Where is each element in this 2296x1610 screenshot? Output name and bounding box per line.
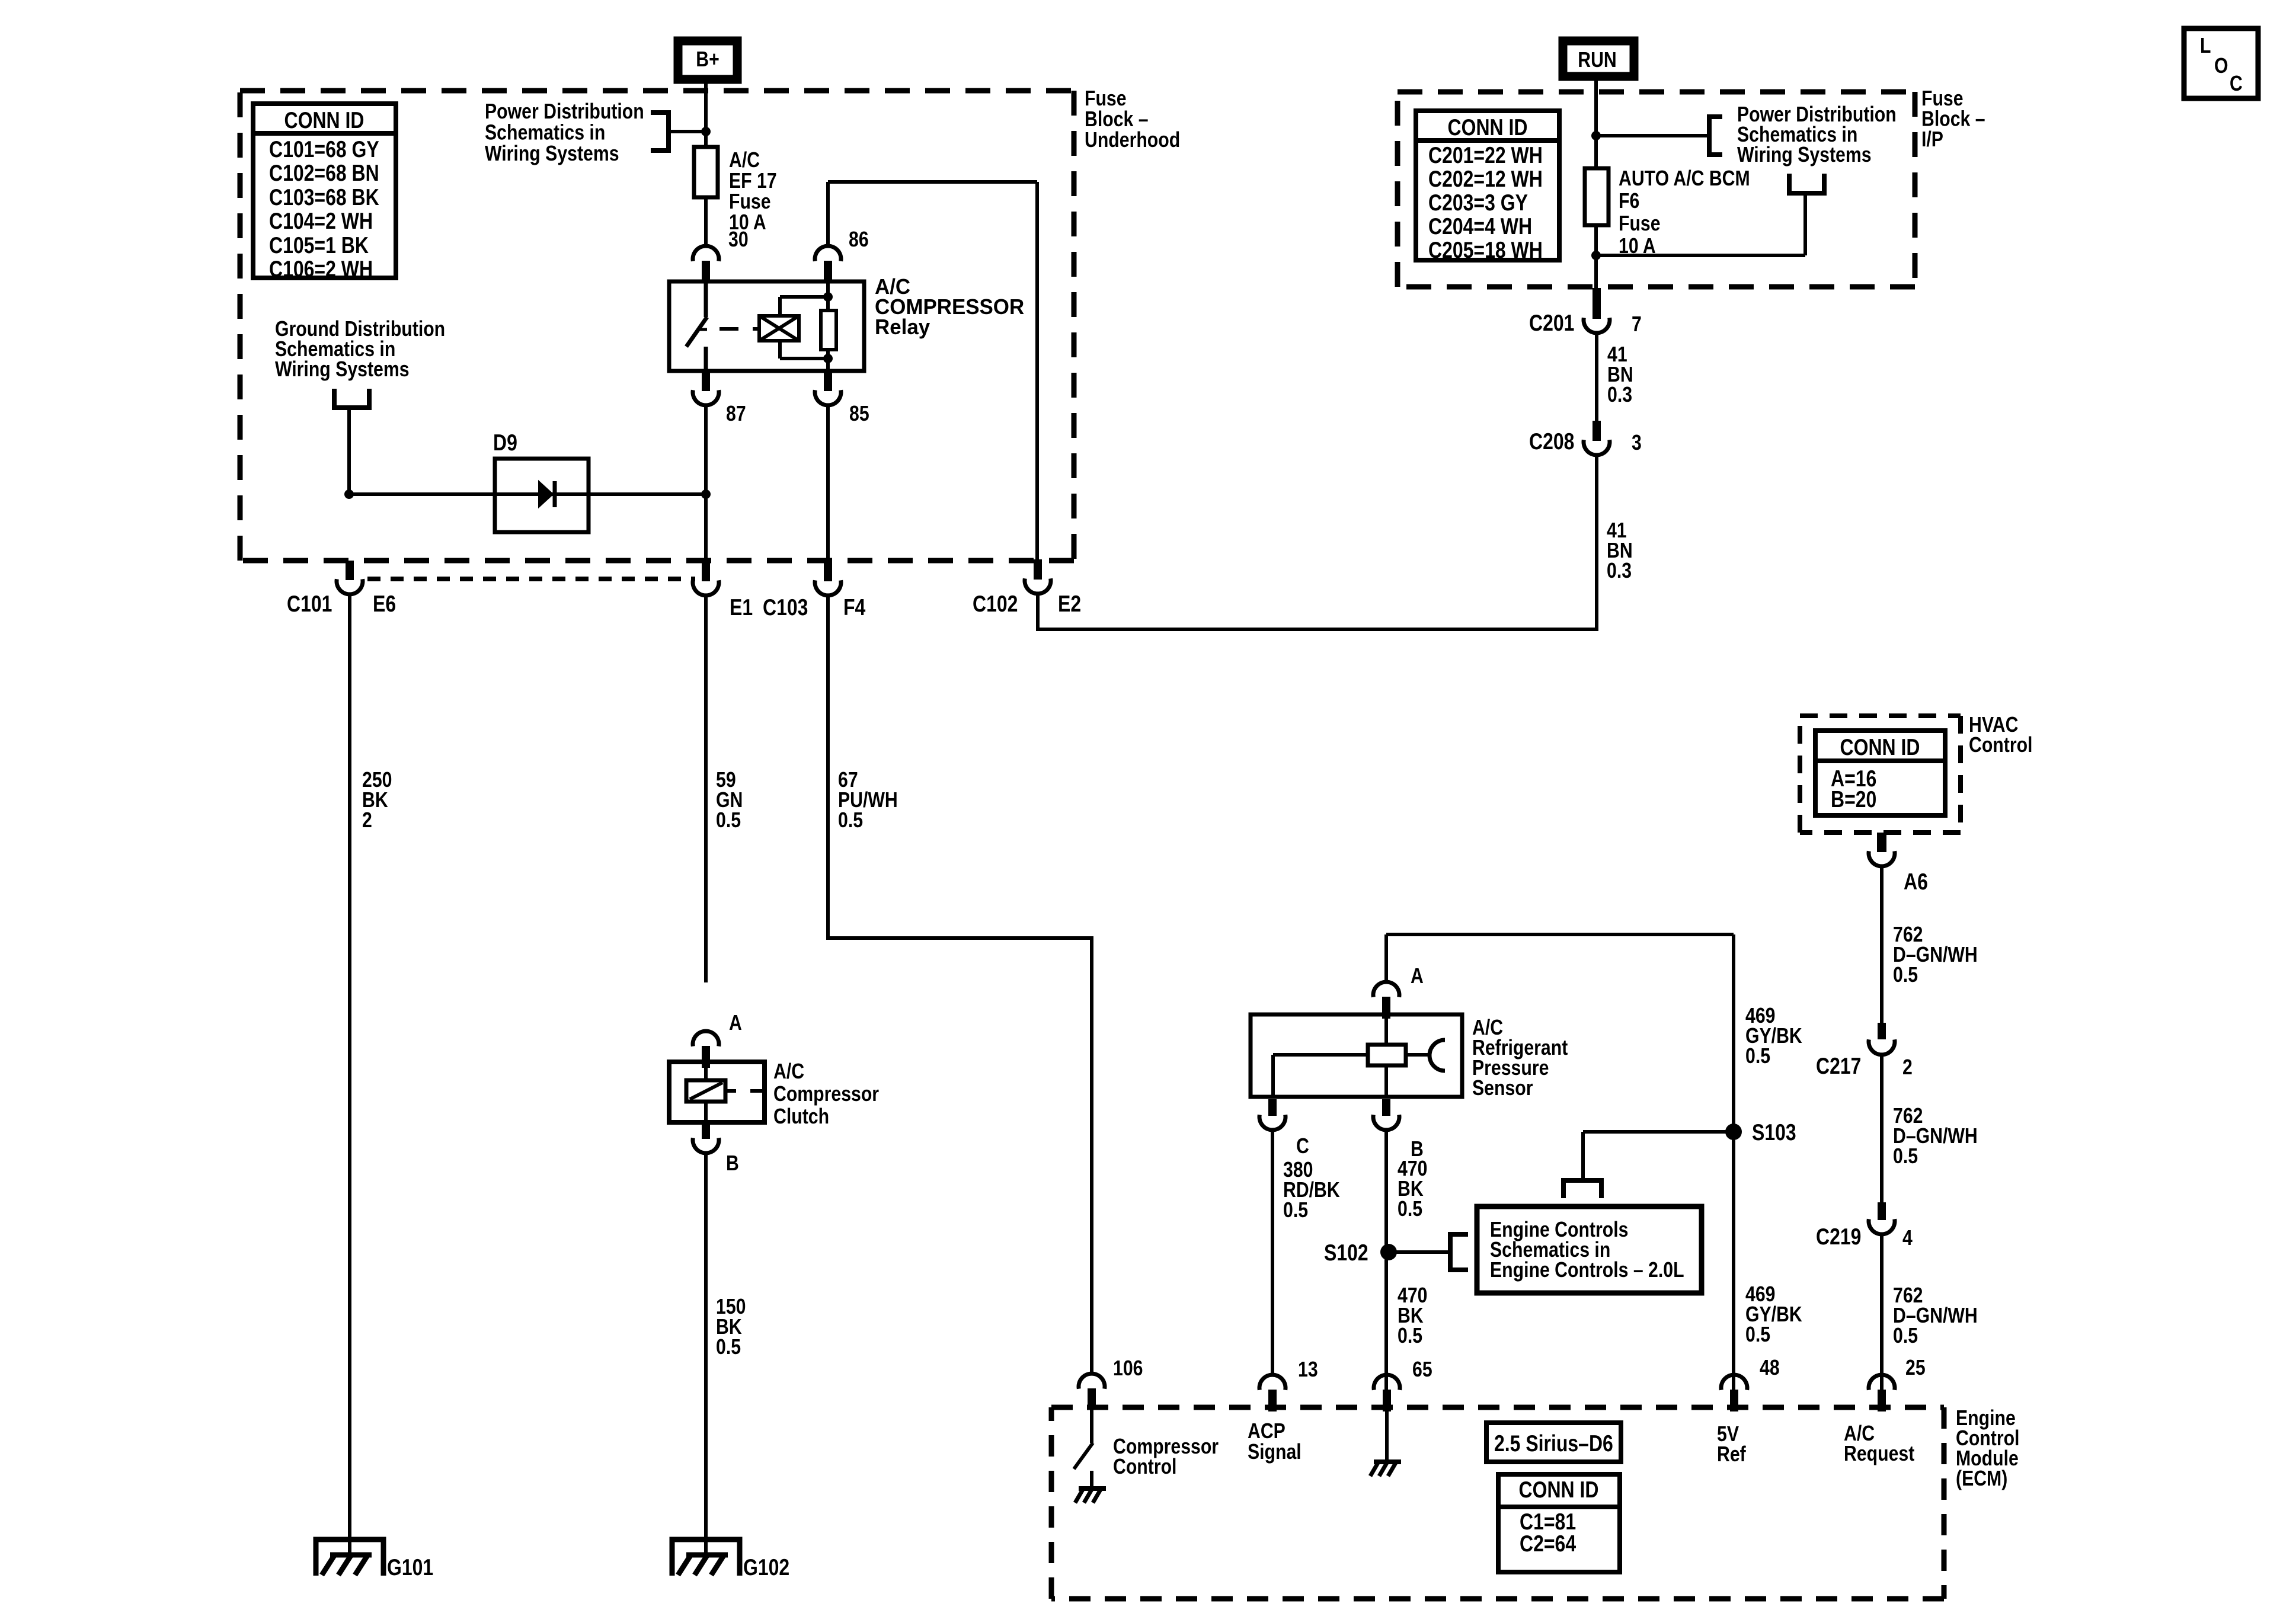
svg-text:A6: A6 xyxy=(1904,869,1928,895)
connector C101/E6 xyxy=(346,561,354,580)
svg-text:C106=2 WH: C106=2 WH xyxy=(269,256,373,282)
sensor internal wires xyxy=(1384,1014,1388,1045)
fuse F6 AUTO A/C BCM xyxy=(1585,168,1609,225)
svg-text:Fuse: Fuse xyxy=(1619,212,1661,236)
svg-text:Relay: Relay xyxy=(875,315,930,340)
wire S102 to bracket xyxy=(1389,1250,1449,1254)
wire F4 to 106 jog xyxy=(826,596,830,938)
svg-text:L: L xyxy=(2200,34,2211,58)
wire 86 circuit riser E2 xyxy=(828,180,1037,184)
svg-text:C202=12 WH: C202=12 WH xyxy=(1428,166,1543,192)
svg-text:C203=3 GY: C203=3 GY xyxy=(1428,190,1528,216)
svg-text:2.5 Sirius–D6: 2.5 Sirius–D6 xyxy=(1494,1430,1613,1457)
svg-text:Ref: Ref xyxy=(1717,1443,1747,1467)
table CONN ID I/P xyxy=(1416,111,1559,260)
bracket down engine controls xyxy=(1561,1178,1566,1198)
node junction RUN wire xyxy=(1591,131,1601,140)
relay switch blade xyxy=(686,317,707,347)
svg-text:25: 25 xyxy=(1905,1356,1926,1380)
bracket engine controls S102 xyxy=(1450,1234,1468,1270)
svg-text:0.5: 0.5 xyxy=(1398,1198,1422,1221)
wire sensor top horizontal xyxy=(1386,933,1734,936)
svg-text:Wiring Systems: Wiring Systems xyxy=(275,358,410,382)
svg-text:3: 3 xyxy=(1632,431,1642,455)
svg-text:C217: C217 xyxy=(1816,1053,1861,1079)
svg-text:Wiring Systems: Wiring Systems xyxy=(1737,143,1872,167)
ground compressor control xyxy=(1079,1486,1106,1491)
connector pin 65 xyxy=(1374,1375,1400,1390)
svg-text:C102=68 BN: C102=68 BN xyxy=(269,160,379,186)
wire 65 to ground xyxy=(1385,1408,1389,1462)
svg-text:Request: Request xyxy=(1844,1442,1914,1466)
box 2.5 Sirius-D6 xyxy=(1486,1423,1621,1462)
connector pin 87 xyxy=(702,371,710,391)
connector sensor pin C xyxy=(1268,1099,1277,1116)
svg-text:C101=68 GY: C101=68 GY xyxy=(269,136,379,162)
svg-text:RUN: RUN xyxy=(1578,49,1617,72)
svg-text:0.3: 0.3 xyxy=(1607,383,1632,407)
svg-text:B: B xyxy=(726,1152,739,1176)
svg-text:0.5: 0.5 xyxy=(1893,1145,1918,1169)
connector C208 xyxy=(1593,421,1601,441)
dotted harness line C101-E1 xyxy=(367,577,695,581)
dashed box HVAC Control xyxy=(1800,713,1961,718)
svg-text:65: 65 xyxy=(1412,1358,1432,1382)
svg-text:O: O xyxy=(2214,55,2228,78)
svg-text:F6: F6 xyxy=(1619,190,1639,213)
svg-text:0.3: 0.3 xyxy=(1607,559,1632,583)
connector pin 106 xyxy=(1079,1374,1105,1389)
svg-text:0.5: 0.5 xyxy=(1893,1324,1918,1348)
svg-text:0.5: 0.5 xyxy=(838,809,863,833)
bracket power distribution I/P xyxy=(1709,117,1722,155)
svg-text:0.5: 0.5 xyxy=(1283,1199,1308,1222)
wire bracket stem I/P xyxy=(1803,193,1807,255)
location box LOC xyxy=(2184,28,2258,98)
svg-text:Sensor: Sensor xyxy=(1472,1077,1533,1100)
wire B+ to fuse EF17 xyxy=(704,79,708,248)
svg-text:2: 2 xyxy=(1902,1056,1913,1080)
svg-text:87: 87 xyxy=(726,402,746,426)
node coil bottom xyxy=(823,354,833,363)
svg-text:Engine Controls – 2.0L: Engine Controls – 2.0L xyxy=(1490,1259,1684,1282)
svg-text:0.5: 0.5 xyxy=(1745,1045,1770,1068)
wire RUN to fuse F6 xyxy=(1594,78,1598,168)
svg-text:C208: C208 xyxy=(1529,428,1574,454)
connector sensor pin A xyxy=(1373,982,1399,997)
svg-text:CONN ID: CONN ID xyxy=(1448,114,1528,140)
wire long horizontal to E2 xyxy=(1038,628,1597,631)
connector pin 25 xyxy=(1869,1375,1895,1390)
relay switch tick xyxy=(699,328,707,331)
connector C201 xyxy=(1593,288,1601,319)
dashed box Engine Control Module xyxy=(1051,1405,1944,1410)
svg-text:C201=22 WH: C201=22 WH xyxy=(1428,142,1543,168)
svg-text:0.5: 0.5 xyxy=(1745,1323,1770,1347)
svg-text:Signal: Signal xyxy=(1248,1441,1302,1464)
relay switch pin30 stub xyxy=(704,281,708,317)
svg-text:C201: C201 xyxy=(1529,310,1574,336)
wire coil risers xyxy=(778,297,782,316)
wire A6 to C217 xyxy=(1880,866,1884,1024)
wire clutch B to G102 xyxy=(704,1153,708,1555)
diode D9 symbol xyxy=(539,481,553,507)
diode box D9 xyxy=(495,459,589,532)
table CONN ID HVAC xyxy=(1815,731,1945,815)
svg-text:Underhood: Underhood xyxy=(1085,129,1180,152)
svg-text:C: C xyxy=(1296,1135,1309,1158)
svg-text:C102: C102 xyxy=(973,591,1018,617)
sensor internal resistor xyxy=(1368,1045,1406,1065)
svg-text:CONN ID: CONN ID xyxy=(1840,734,1920,760)
clutch wire through xyxy=(704,1062,708,1080)
svg-text:I/P: I/P xyxy=(1921,128,1943,152)
wire C201 to C208 xyxy=(1595,333,1598,422)
wire coil top link xyxy=(780,295,828,299)
connector pin 48 xyxy=(1721,1375,1747,1390)
wire C217 to C219 xyxy=(1880,1055,1884,1204)
svg-text:0.5: 0.5 xyxy=(716,1336,741,1359)
svg-text:AUTO A/C BCM: AUTO A/C BCM xyxy=(1619,167,1750,191)
wire E1 to clutch A xyxy=(704,596,708,982)
bracket to Power Distribution schematics xyxy=(651,113,669,151)
svg-text:106: 106 xyxy=(1113,1357,1143,1381)
wire 106 drop xyxy=(1090,936,1093,1375)
svg-text:CONN ID: CONN ID xyxy=(284,107,364,133)
wire 87 to E1 xyxy=(704,405,708,562)
connector E1/C103 xyxy=(702,561,710,581)
wire S103 branch horizontal xyxy=(1583,1130,1734,1134)
svg-text:30: 30 xyxy=(728,228,749,252)
wire bracket stem to S103 branch xyxy=(1581,1132,1585,1180)
wire C208 down to corner xyxy=(1595,455,1598,631)
relay coil box with X xyxy=(759,316,799,341)
svg-text:C: C xyxy=(2230,72,2243,96)
svg-text:Compressor: Compressor xyxy=(773,1083,879,1106)
wire C219 to pin 25 xyxy=(1880,1234,1884,1390)
ground G101 xyxy=(316,1539,383,1576)
svg-text:S102: S102 xyxy=(1324,1240,1368,1266)
svg-text:A/C: A/C xyxy=(773,1060,804,1084)
svg-text:C105=1 BK: C105=1 BK xyxy=(269,232,369,258)
svg-text:E1: E1 xyxy=(730,594,753,620)
svg-text:7: 7 xyxy=(1632,313,1642,337)
connector C217 xyxy=(1878,1023,1886,1039)
svg-text:CONN ID: CONN ID xyxy=(1519,1477,1599,1503)
wire F4 jog horizontal xyxy=(826,936,1092,940)
node splice S102 xyxy=(1380,1244,1397,1260)
svg-text:0.5: 0.5 xyxy=(716,809,741,833)
node coil top xyxy=(823,292,833,302)
wire coil bottom link xyxy=(780,357,828,360)
svg-text:F4: F4 xyxy=(843,594,865,620)
sensor box A/C Refrigerant Pressure Sensor xyxy=(1251,1014,1462,1097)
svg-text:G102: G102 xyxy=(743,1554,789,1580)
svg-text:(ECM): (ECM) xyxy=(1956,1467,2007,1491)
svg-text:E2: E2 xyxy=(1058,591,1081,617)
table CONN ID underhood xyxy=(253,104,396,278)
power symbol RUN box xyxy=(1563,41,1634,76)
svg-text:86: 86 xyxy=(849,228,869,252)
clutch coil xyxy=(686,1080,725,1102)
svg-text:S103: S103 xyxy=(1752,1119,1796,1145)
svg-text:C219: C219 xyxy=(1816,1224,1861,1250)
wire fuse F6 to C201 xyxy=(1594,225,1598,288)
svg-text:C204=4 WH: C204=4 WH xyxy=(1428,213,1532,239)
connector sensor pin B xyxy=(1382,1099,1390,1116)
svg-text:C2=64: C2=64 xyxy=(1520,1531,1576,1557)
svg-text:Schematics in: Schematics in xyxy=(485,121,605,145)
svg-text:2: 2 xyxy=(362,809,372,833)
ground G102 xyxy=(672,1539,740,1576)
dashed box Fuse Block - I/P xyxy=(1398,89,1915,95)
connector C102/E2 xyxy=(1034,559,1042,580)
svg-text:C103=68 BK: C103=68 BK xyxy=(269,184,379,210)
connector pin 30 xyxy=(693,246,719,261)
svg-text:C103: C103 xyxy=(763,594,808,620)
sensor pressure port arc xyxy=(1430,1040,1445,1071)
connector C219 xyxy=(1878,1202,1886,1220)
node D9 line left xyxy=(344,489,354,499)
svg-text:0.5: 0.5 xyxy=(1893,964,1918,987)
svg-text:B=20: B=20 xyxy=(1831,786,1876,812)
box Engine Controls Schematics xyxy=(1477,1206,1702,1293)
dashed box Fuse Block - Underhood xyxy=(240,88,1074,94)
wire 86 riser xyxy=(826,182,830,248)
node junction on B+ wire xyxy=(701,127,711,136)
connector F4 xyxy=(824,561,832,581)
node D9 line right xyxy=(701,489,711,499)
svg-text:Clutch: Clutch xyxy=(773,1105,829,1129)
clutch box xyxy=(669,1062,765,1122)
wire bracket to B+ wire xyxy=(669,130,706,133)
relay box A/C COMPRESSOR Relay xyxy=(669,281,864,371)
clutch linkage dashes xyxy=(725,1089,736,1093)
svg-text:13: 13 xyxy=(1298,1358,1318,1382)
wire sensor B to pin 65 xyxy=(1384,1130,1388,1390)
svg-text:4: 4 xyxy=(1902,1227,1913,1250)
wire S103 to pin 48 xyxy=(1732,934,1735,1390)
svg-text:G101: G101 xyxy=(387,1554,433,1580)
node splice S103 xyxy=(1725,1124,1742,1140)
svg-text:Wiring Systems: Wiring Systems xyxy=(485,142,619,166)
svg-text:0.5: 0.5 xyxy=(1398,1324,1422,1348)
svg-text:C104=2 WH: C104=2 WH xyxy=(269,208,373,234)
relay resistor xyxy=(826,283,830,311)
wire D9 horizontal xyxy=(349,492,706,496)
svg-text:48: 48 xyxy=(1760,1356,1780,1380)
wire junction to down bracket xyxy=(1596,254,1805,257)
ECM switch compressor control xyxy=(1090,1407,1093,1443)
relay switch to coil dashes xyxy=(720,327,738,331)
svg-text:D9: D9 xyxy=(493,430,517,456)
wire RUN junction to bracket xyxy=(1596,134,1709,137)
bracket down I/P xyxy=(1789,174,1824,193)
svg-text:A: A xyxy=(729,1012,742,1035)
wire 85 to F4 xyxy=(826,405,830,562)
connector A6 xyxy=(1877,833,1886,852)
svg-text:Control: Control xyxy=(1113,1455,1176,1479)
svg-text:E6: E6 xyxy=(373,591,396,617)
wire sensor A drop xyxy=(1384,934,1388,982)
svg-text:Power Distribution: Power Distribution xyxy=(485,100,644,124)
svg-text:A: A xyxy=(1411,965,1424,988)
connector clutch pin B xyxy=(702,1122,710,1139)
svg-text:C101: C101 xyxy=(287,591,332,617)
svg-text:C205=18 WH: C205=18 WH xyxy=(1428,237,1543,263)
connector clutch pin A xyxy=(693,1031,719,1046)
connector pin 85 xyxy=(824,371,832,391)
wire bracket to D9 line xyxy=(347,408,351,494)
relay switch lower stub xyxy=(704,347,708,371)
power symbol B+ box xyxy=(678,41,737,79)
svg-text:B+: B+ xyxy=(696,48,719,72)
svg-text:Control: Control xyxy=(1969,734,2032,757)
wire 250 BK 2 xyxy=(348,596,351,1555)
fuse EF17 A/C 10A xyxy=(694,147,718,197)
node below fuse F6 xyxy=(1591,251,1601,260)
table CONN ID ECM xyxy=(1498,1474,1620,1572)
wire sensor C to pin 13 xyxy=(1271,1130,1274,1375)
ground at pin 65 xyxy=(1374,1459,1401,1464)
bracket ground distribution xyxy=(334,389,369,408)
connector pin 13 xyxy=(1259,1375,1285,1390)
svg-text:85: 85 xyxy=(849,402,869,426)
connector pin 86 xyxy=(815,246,841,261)
wire E2 drop xyxy=(1036,595,1040,631)
